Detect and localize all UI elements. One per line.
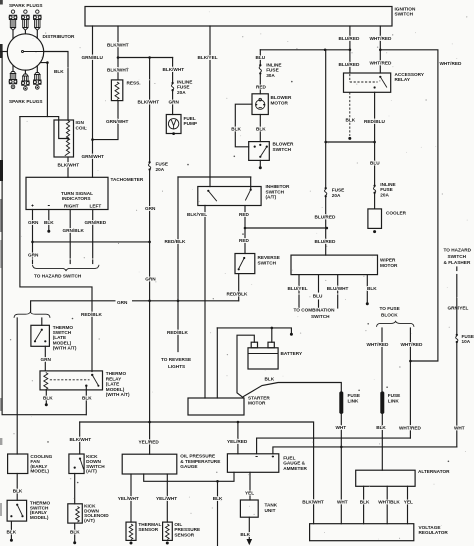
wire RED inhibitor to reverse switch bbox=[244, 206, 246, 254]
svg-text:WHT/RED: WHT/RED bbox=[370, 36, 392, 41]
svg-text:BLK: BLK bbox=[376, 425, 386, 430]
svg-text:MOTOR: MOTOR bbox=[248, 401, 266, 406]
fuse link right bbox=[380, 391, 384, 414]
svg-text:GRN: GRN bbox=[28, 253, 39, 258]
svg-text:FUSE: FUSE bbox=[380, 187, 393, 192]
svg-text:SENSOR: SENSOR bbox=[174, 532, 194, 537]
svg-text:MODEL): MODEL) bbox=[106, 387, 125, 392]
svg-text:SWITCH: SWITCH bbox=[258, 260, 277, 265]
wire WHT fuse link to regulator bbox=[340, 413, 342, 524]
svg-text:REVERSE: REVERSE bbox=[258, 255, 280, 260]
svg-text:SPARK PLUGS: SPARK PLUGS bbox=[9, 99, 43, 104]
bus Y2 WHT/RED bbox=[257, 438, 411, 454]
svg-text:BLU: BLU bbox=[256, 55, 266, 60]
accessory bus Y1 bbox=[80, 422, 314, 524]
ground arrow tank unit bbox=[247, 539, 253, 545]
wire BLU/RED to wiper motor bbox=[325, 197, 327, 255]
wire GRN/BLK tach output bbox=[69, 210, 71, 259]
wire distributor left stub bbox=[0, 51, 7, 53]
svg-text:SWITCH: SWITCH bbox=[266, 189, 285, 194]
wire to cooler bbox=[374, 194, 376, 209]
svg-text:BLK: BLK bbox=[54, 69, 64, 74]
svg-text:YEL: YEL bbox=[245, 491, 254, 496]
spark plug P6 (lower) bbox=[33, 66, 41, 89]
wire GRN crossover to fuse column bbox=[33, 241, 150, 243]
wire BLK starter to fuse link bbox=[244, 383, 342, 397]
alternator box bbox=[356, 470, 415, 486]
svg-text:BLU/WHT: BLU/WHT bbox=[327, 286, 349, 291]
svg-text:LINK: LINK bbox=[348, 398, 360, 403]
wire YEL/WHT to thermal sensor bbox=[130, 474, 132, 522]
bus Y3 WHT bbox=[273, 447, 457, 454]
svg-text:YEL/RED: YEL/RED bbox=[139, 440, 160, 445]
svg-text:BLK: BLK bbox=[70, 530, 80, 535]
svg-text:TO FUSE: TO FUSE bbox=[380, 306, 400, 311]
svg-text:10A: 10A bbox=[462, 339, 471, 344]
tach terminal ticks bbox=[32, 205, 50, 207]
ign coil winding bbox=[65, 121, 70, 156]
wire BLK/WHT fuel pump branch bbox=[172, 58, 174, 82]
svg-text:BLK: BLK bbox=[43, 396, 53, 401]
spark plug P5 (lower) bbox=[22, 70, 30, 90]
wire RED/BLK reverse switch to GRN bus bbox=[238, 274, 240, 301]
wire BLU/RED wiper column bbox=[325, 50, 327, 187]
left edge GRN return wire bbox=[2, 52, 86, 415]
svg-text:BLK/WHT: BLK/WHT bbox=[70, 437, 92, 442]
wire GRN bus bbox=[31, 301, 239, 312]
svg-text:RED: RED bbox=[239, 212, 250, 217]
wire BLK/YEL inhibitor to starter bbox=[204, 206, 206, 399]
ground thermal sensor bbox=[130, 542, 133, 545]
svg-text:& TEMPERATURE: & TEMPERATURE bbox=[180, 459, 220, 464]
wire BLK from distributor bbox=[40, 63, 47, 117]
fuse FUSE 20A (wiper) bbox=[325, 187, 327, 189]
svg-text:BLK/YEL: BLK/YEL bbox=[187, 212, 207, 217]
tank unit box bbox=[240, 500, 258, 517]
ground solenoid bbox=[73, 541, 76, 544]
svg-text:YEL: YEL bbox=[404, 500, 413, 505]
svg-text:GRN: GRN bbox=[28, 220, 39, 225]
junction node RED/BLK on GRN bus bbox=[177, 300, 180, 303]
svg-text:FUSE: FUSE bbox=[332, 188, 345, 193]
svg-text:FUSE: FUSE bbox=[156, 162, 169, 167]
oil pressure sensor bbox=[163, 522, 173, 540]
wire kick switch to solenoid bbox=[74, 474, 76, 504]
svg-text:& FLASHER: & FLASHER bbox=[444, 260, 471, 265]
battery feed line bbox=[217, 328, 291, 333]
svg-text:GRN/YEL: GRN/YEL bbox=[448, 306, 469, 311]
spark plug P4 (lower) bbox=[9, 65, 17, 88]
ground relay BLK bbox=[45, 403, 48, 406]
battery terminal end bbox=[290, 333, 293, 336]
wire branch to fuse columns bbox=[118, 57, 173, 59]
wire GRN/YEL from hazard flasher bbox=[456, 267, 458, 271]
junction node GRN bbox=[31, 241, 34, 244]
wire GRN to fuel pump bbox=[172, 91, 174, 114]
wire BLU/RED ignition to accessory relay bbox=[349, 26, 351, 73]
svg-text:BLK: BLK bbox=[265, 377, 275, 382]
svg-text:30A: 30A bbox=[266, 73, 275, 78]
svg-text:RED/BLK: RED/BLK bbox=[81, 312, 102, 317]
svg-text:GRN: GRN bbox=[117, 300, 128, 305]
svg-text:RED: RED bbox=[239, 238, 250, 243]
wire BLK thermo early ground bbox=[10, 521, 12, 538]
wire BLK tach ground bbox=[48, 210, 50, 230]
wire to thermo switch late bbox=[41, 318, 43, 325]
svg-text:TO HAZARD SWITCH: TO HAZARD SWITCH bbox=[34, 274, 82, 279]
wire to cooling fan (long left) bbox=[16, 318, 18, 454]
wire battery post up bbox=[271, 328, 273, 342]
svg-text:GRN: GRN bbox=[41, 357, 52, 362]
ground blower switch bbox=[259, 166, 262, 169]
svg-text:BLK: BLK bbox=[7, 530, 17, 535]
wire BLK relay to left return bbox=[85, 386, 87, 415]
thermo relay box bbox=[40, 371, 103, 390]
resistor RESS. bbox=[111, 80, 122, 101]
svg-text:BLK/WHT: BLK/WHT bbox=[138, 100, 160, 105]
svg-text:YEL/WHT: YEL/WHT bbox=[156, 496, 177, 501]
svg-text:BLK/WHT: BLK/WHT bbox=[58, 162, 80, 167]
oil pressure and temperature gauge box bbox=[122, 454, 177, 474]
svg-text:WIPER: WIPER bbox=[380, 258, 396, 263]
svg-text:BLOWER: BLOWER bbox=[273, 142, 294, 147]
svg-text:LINK: LINK bbox=[388, 398, 400, 403]
svg-text:FUSE: FUSE bbox=[177, 85, 190, 90]
ign coil box bbox=[54, 120, 74, 157]
svg-text:THERMO: THERMO bbox=[106, 371, 127, 376]
wire battery positive to starter bbox=[216, 328, 218, 398]
kick down solenoid box bbox=[68, 504, 83, 523]
wire GRN tach output bbox=[32, 210, 34, 259]
svg-text:INLINE: INLINE bbox=[177, 79, 192, 84]
fuse INLINE FUSE 20A bbox=[171, 82, 173, 84]
svg-text:BLU/RED: BLU/RED bbox=[315, 215, 336, 220]
svg-text:FUSE: FUSE bbox=[266, 68, 279, 73]
svg-text:YEL/RED: YEL/RED bbox=[227, 439, 248, 444]
svg-text:FUSE: FUSE bbox=[388, 393, 401, 398]
wiper motor box bbox=[291, 255, 378, 275]
ground relay BLK bbox=[348, 137, 351, 140]
wire GRN/RED tach output bbox=[92, 210, 94, 259]
wire RED/BLU relay to cooler bbox=[374, 92, 376, 184]
svg-text:INHIBITOR: INHIBITOR bbox=[266, 184, 290, 189]
hazard bracket bbox=[33, 265, 100, 271]
reverse switch box bbox=[235, 254, 255, 274]
ground oil pressure sensor bbox=[166, 542, 169, 545]
fuse link left bbox=[339, 391, 343, 414]
svg-text:IGN: IGN bbox=[76, 120, 85, 125]
fuse FUSE 10A bbox=[456, 334, 458, 336]
svg-text:20A: 20A bbox=[177, 90, 186, 95]
thermo switch late box bbox=[31, 325, 50, 346]
fuse block bracket bbox=[377, 321, 415, 327]
svg-text:(A/T): (A/T) bbox=[84, 518, 95, 523]
wire BLK alternator to regulator bbox=[363, 486, 365, 523]
svg-text:SWITCH: SWITCH bbox=[311, 314, 330, 319]
wire BLU link to wiper column bbox=[326, 141, 375, 143]
svg-text:LIGHTS: LIGHTS bbox=[168, 364, 185, 369]
svg-text:RED/BLK: RED/BLK bbox=[167, 330, 188, 335]
svg-text:GAUGE &: GAUGE & bbox=[283, 461, 305, 466]
svg-text:OIL PRESSURE: OIL PRESSURE bbox=[180, 454, 215, 459]
svg-text:(WITH A/T): (WITH A/T) bbox=[53, 345, 77, 350]
svg-text:MODEL): MODEL) bbox=[30, 515, 49, 520]
svg-text:BLK: BLK bbox=[256, 127, 266, 132]
thermal sensor bbox=[126, 522, 136, 540]
wire BLU drop to fuse 30A bbox=[259, 50, 261, 64]
wire YEL/WHT to oil pressure sensor bbox=[166, 474, 168, 522]
svg-text:INLINE: INLINE bbox=[380, 182, 395, 187]
svg-text:TACHOMETER: TACHOMETER bbox=[111, 177, 144, 182]
svg-text:BLK: BLK bbox=[44, 220, 54, 225]
svg-text:MOTOR: MOTOR bbox=[380, 263, 398, 268]
svg-text:RED/BLK: RED/BLK bbox=[227, 292, 248, 297]
svg-text:OIL: OIL bbox=[174, 522, 182, 527]
wire inhibitor feed line bbox=[178, 176, 251, 178]
wire BLK fuse link to alternator bbox=[381, 413, 383, 470]
voltage regulator box bbox=[310, 524, 414, 541]
wire BLK wiper ground bbox=[366, 275, 368, 303]
wire blower switch ground bbox=[259, 160, 261, 166]
wire YEL alternator to regulator bbox=[407, 486, 409, 523]
wire RED to blower motor bbox=[259, 74, 261, 93]
wire gauge tap to fuel gauge bbox=[144, 472, 234, 481]
blower motor bbox=[252, 94, 268, 115]
svg-text:(A/T): (A/T) bbox=[86, 469, 97, 474]
svg-text:BLK: BLK bbox=[360, 500, 370, 505]
svg-text:20A: 20A bbox=[380, 192, 389, 197]
svg-text:BLU/RED: BLU/RED bbox=[315, 239, 336, 244]
starter motor box bbox=[188, 398, 244, 415]
svg-text:WHT: WHT bbox=[454, 426, 465, 431]
junction dot distributor BLK bbox=[46, 61, 49, 64]
svg-text:BLK/WHT: BLK/WHT bbox=[107, 67, 129, 72]
svg-text:GRN/WHT: GRN/WHT bbox=[106, 119, 129, 124]
svg-text:ALTERNATOR: ALTERNATOR bbox=[418, 469, 450, 474]
accessory relay box bbox=[344, 73, 391, 92]
thermo late brace bbox=[14, 312, 50, 318]
wire WHT/RED to fuse link bbox=[381, 328, 383, 391]
svg-text:RESS.: RESS. bbox=[127, 80, 141, 85]
wire BLU/WHT wiper output bbox=[337, 275, 339, 293]
svg-text:BLOCK: BLOCK bbox=[381, 312, 398, 317]
svg-text:WHT/RED: WHT/RED bbox=[440, 61, 462, 66]
svg-text:BLK/WHT: BLK/WHT bbox=[302, 500, 324, 505]
svg-text:WHT/RED: WHT/RED bbox=[367, 342, 389, 347]
blower switch box bbox=[249, 142, 270, 161]
junction node BLK/WHT branch bbox=[117, 56, 120, 59]
wire BLK branch to coil primary bbox=[20, 117, 68, 139]
svg-text:THERMAL: THERMAL bbox=[138, 522, 161, 527]
svg-text:(A/T): (A/T) bbox=[266, 195, 277, 200]
junction node GRN/WHT join bbox=[91, 138, 94, 141]
svg-text:VOLTAGE: VOLTAGE bbox=[419, 525, 441, 530]
inhibitor switch box bbox=[198, 187, 261, 206]
svg-text:GRN/BLU: GRN/BLU bbox=[82, 55, 104, 60]
svg-text:PUMP: PUMP bbox=[184, 121, 198, 126]
wire GRN thermo switch to relay bbox=[44, 346, 46, 371]
label GRN on bus bbox=[116, 297, 133, 304]
junction node RED link bbox=[326, 227, 329, 230]
svg-text:STARTER: STARTER bbox=[248, 395, 270, 400]
ground tach BLK bbox=[47, 230, 50, 233]
svg-text:COIL: COIL bbox=[76, 125, 87, 130]
svg-text:DISTRIBUTOR: DISTRIBUTOR bbox=[43, 34, 76, 39]
svg-text:BLU: BLU bbox=[313, 294, 323, 299]
wire BLK/WHT to fuse 20A bbox=[149, 58, 151, 162]
wire BLK relay output (dashed) bbox=[349, 92, 351, 136]
svg-text:BLU/YEL: BLU/YEL bbox=[288, 286, 308, 291]
svg-text:RELAY: RELAY bbox=[106, 376, 122, 381]
ground cooler bbox=[373, 230, 376, 233]
svg-text:TO REVERSE: TO REVERSE bbox=[161, 357, 191, 362]
wire BLK solenoid ground bbox=[74, 523, 76, 541]
svg-text:RED: RED bbox=[256, 84, 267, 89]
svg-text:GRN: GRN bbox=[145, 277, 156, 282]
svg-text:BATTERY: BATTERY bbox=[281, 351, 303, 356]
svg-text:GRN/WHT: GRN/WHT bbox=[82, 154, 105, 159]
svg-text:WHT/RED: WHT/RED bbox=[370, 60, 392, 65]
svg-text:BLK: BLK bbox=[346, 118, 356, 123]
svg-text:TURN SIGNAL: TURN SIGNAL bbox=[61, 191, 93, 196]
svg-text:AMMETER: AMMETER bbox=[283, 466, 307, 471]
fuse INLINE FUSE 30A bbox=[259, 64, 261, 66]
svg-text:BLK: BLK bbox=[367, 286, 377, 291]
svg-text:BLK: BLK bbox=[231, 127, 241, 132]
svg-text:COOLER: COOLER bbox=[386, 210, 407, 215]
wire WHT/RED to fuel gauge bbox=[409, 328, 411, 438]
wire YEL to tank unit bbox=[249, 472, 251, 500]
wire battery negative to starter bbox=[237, 335, 254, 398]
wire BLK relay coil ground bbox=[45, 390, 47, 403]
distributor body bbox=[7, 34, 43, 70]
svg-text:REGULATOR: REGULATOR bbox=[419, 530, 449, 535]
fuel gauge and ammeter box bbox=[227, 454, 278, 473]
svg-text:SWITCH: SWITCH bbox=[395, 11, 414, 16]
svg-text:GRN/RED: GRN/RED bbox=[85, 220, 107, 225]
svg-text:MOTOR: MOTOR bbox=[271, 101, 289, 106]
svg-text:RELAY: RELAY bbox=[395, 77, 411, 82]
wire GRN/WHT resistor to GRN/BLU bbox=[93, 101, 119, 140]
wire WHT/RED long right side bbox=[380, 50, 438, 361]
svg-text:(WITH A/T): (WITH A/T) bbox=[106, 392, 130, 397]
cooler box bbox=[368, 209, 382, 229]
svg-text:SWITCH: SWITCH bbox=[273, 147, 292, 152]
svg-text:BLK: BLK bbox=[213, 496, 223, 501]
wire RED/BLK left drop bbox=[177, 177, 179, 352]
spark plug P3 bbox=[33, 10, 41, 38]
scan artifact bars left edge bbox=[0, 0, 3, 5]
svg-text:20A: 20A bbox=[332, 193, 341, 198]
wire BLU feed line bbox=[260, 49, 350, 51]
svg-text:SWITCH: SWITCH bbox=[448, 254, 467, 259]
svg-text:YEL/WHT: YEL/WHT bbox=[118, 496, 139, 501]
svg-text:GRN: GRN bbox=[145, 206, 156, 211]
svg-text:(LATE: (LATE bbox=[106, 382, 119, 387]
svg-text:FUSE: FUSE bbox=[348, 393, 361, 398]
svg-text:TO HAZARD: TO HAZARD bbox=[444, 248, 472, 253]
wire BLK/YEL ignition to inhibitor bbox=[209, 26, 211, 187]
ignition switch box bbox=[85, 7, 392, 27]
wire BLK/WHT coil to tachometer bbox=[67, 157, 69, 177]
svg-text:FUEL: FUEL bbox=[184, 116, 196, 121]
wire BLU wiper output bbox=[318, 275, 320, 292]
svg-text:BLK: BLK bbox=[240, 532, 250, 537]
svg-text:SPARK PLUGS: SPARK PLUGS bbox=[9, 3, 43, 8]
svg-text:BLK: BLK bbox=[82, 396, 92, 401]
svg-text:RIGHT: RIGHT bbox=[64, 204, 79, 209]
svg-text:MODEL): MODEL) bbox=[30, 469, 49, 474]
thermo switch early box bbox=[7, 500, 27, 521]
fuse FUSE 20A bbox=[148, 161, 150, 163]
ground thermo early bbox=[10, 539, 13, 542]
svg-text:WHT: WHT bbox=[337, 500, 348, 505]
svg-text:TO COMBINATION: TO COMBINATION bbox=[294, 308, 336, 313]
wire BLK down from tap bbox=[217, 481, 219, 546]
svg-text:INDICATORS: INDICATORS bbox=[62, 196, 91, 201]
svg-text:BLK/WHT: BLK/WHT bbox=[107, 43, 129, 48]
svg-text:GAUGE: GAUGE bbox=[180, 464, 197, 469]
svg-text:BLU: BLU bbox=[370, 161, 380, 166]
spark plug P2 bbox=[22, 10, 30, 34]
svg-text:BLK/YEL: BLK/YEL bbox=[198, 55, 218, 60]
svg-text:INLINE: INLINE bbox=[266, 62, 281, 67]
wire YEL/RED to fuel gauge bbox=[237, 422, 239, 454]
svg-text:LEFT: LEFT bbox=[90, 204, 102, 209]
fuse INLINE FUSE 20A (cooler) bbox=[373, 185, 375, 187]
wire BLK tank unit ground bbox=[248, 517, 250, 538]
wire GRN long column to oil gauge bbox=[149, 171, 151, 455]
battery bbox=[248, 348, 278, 369]
svg-text:GRN: GRN bbox=[169, 99, 180, 104]
fuel pump bbox=[166, 115, 181, 134]
cooling fan box bbox=[8, 454, 28, 474]
svg-text:BLK: BLK bbox=[13, 488, 23, 493]
wire GRN/BLU ignition to tach bbox=[92, 26, 94, 177]
wire BLK loop down left side bbox=[20, 117, 92, 372]
svg-text:RED/BLU: RED/BLU bbox=[364, 119, 385, 124]
svg-text:WHT/RED: WHT/RED bbox=[401, 342, 423, 347]
svg-text:BLK/WHT: BLK/WHT bbox=[163, 67, 185, 72]
spark plug P1 bbox=[9, 10, 17, 39]
wire BLK bypass left of motor bbox=[235, 104, 252, 147]
svg-text:WHT/BLK: WHT/BLK bbox=[378, 500, 400, 505]
svg-text:FUSE: FUSE bbox=[462, 334, 474, 339]
wire BLK/WHT to kick down switch bbox=[79, 422, 81, 454]
kick down switch box bbox=[69, 454, 84, 474]
ground wiper BLK bbox=[366, 302, 369, 305]
wire BLU/YEL wiper output bbox=[298, 275, 300, 293]
svg-text:UNIT: UNIT bbox=[265, 508, 276, 513]
wire distributor to ign coil bbox=[44, 52, 68, 121]
svg-text:BLU/RED: BLU/RED bbox=[339, 62, 360, 67]
svg-text:RED/BLK: RED/BLK bbox=[165, 239, 186, 244]
wire link reverse RED to wiper column bbox=[245, 227, 327, 229]
svg-text:WHT/RED: WHT/RED bbox=[399, 426, 421, 431]
wire BLK motor to blower switch bbox=[259, 115, 261, 142]
wire WHT/BLK alternator to regulator bbox=[386, 486, 388, 523]
svg-text:BLU/RED: BLU/RED bbox=[339, 36, 360, 41]
wire WHT/RED ignition to accessory relay bbox=[379, 26, 381, 73]
svg-text:TANK: TANK bbox=[265, 503, 278, 508]
svg-text:BLOWER: BLOWER bbox=[271, 95, 292, 100]
svg-text:FUEL: FUEL bbox=[283, 455, 295, 460]
wire BLK cooling fan to thermo switch bbox=[16, 474, 18, 501]
svg-text:PRESSURE: PRESSURE bbox=[174, 527, 200, 532]
svg-text:GRN/BLK: GRN/BLK bbox=[63, 228, 85, 233]
svg-text:ACCESSORY: ACCESSORY bbox=[395, 72, 425, 77]
wire WHT fuse 10A down to bus bbox=[456, 343, 458, 447]
